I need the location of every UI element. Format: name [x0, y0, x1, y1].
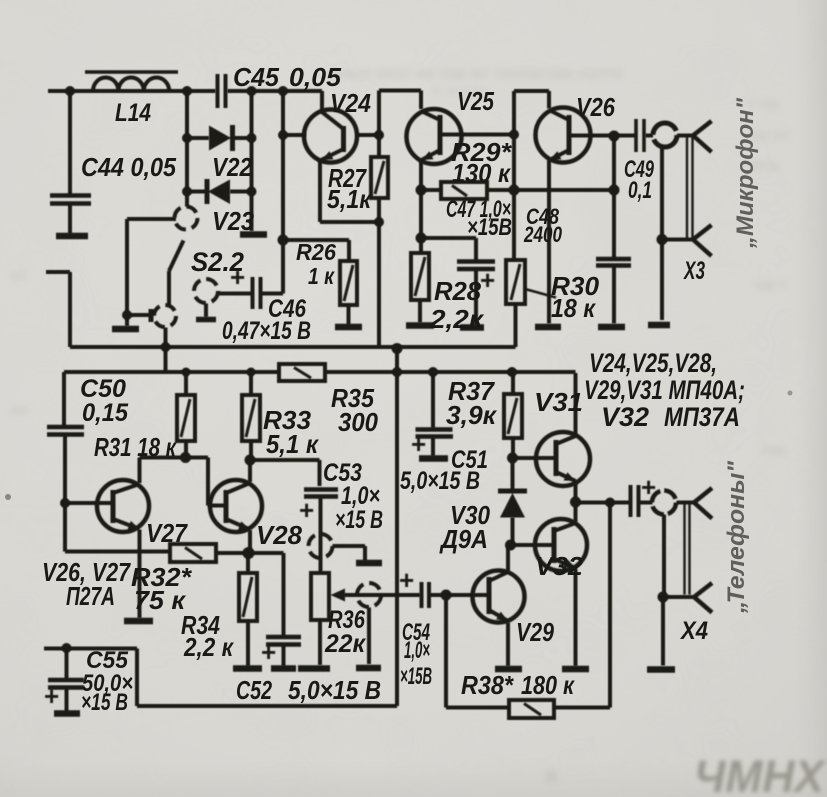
svg-text:18 к: 18 к	[551, 293, 597, 323]
svg-text:300: 300	[338, 407, 378, 437]
svg-text:Д9А: Д9А	[439, 524, 488, 554]
svg-text:C45: C45	[233, 62, 280, 92]
svg-text:„Микрофон": „Микрофон"	[732, 97, 759, 249]
svg-text:+: +	[399, 565, 414, 595]
svg-text:×15В: ×15В	[467, 214, 512, 241]
svg-text:75 к: 75 к	[134, 585, 187, 615]
svg-text:2,2к: 2,2к	[429, 304, 485, 334]
svg-text:V26: V26	[576, 92, 615, 122]
svg-text:180 к: 180 к	[521, 670, 576, 700]
svg-text:V28: V28	[256, 520, 303, 550]
svg-text:R31 18 к: R31 18 к	[94, 432, 177, 462]
svg-text:V29,V31 МП40А;: V29,V31 МП40А;	[584, 375, 745, 405]
svg-text:нв т: нв т	[755, 277, 787, 294]
svg-text:5,1к: 5,1к	[327, 184, 373, 214]
svg-text:130 к: 130 к	[452, 158, 512, 188]
svg-text:тпа: тпа	[760, 442, 785, 459]
svg-text:5,1 к: 5,1 к	[266, 429, 320, 459]
svg-text:R28: R28	[434, 276, 482, 306]
svg-text:×15В: ×15В	[400, 663, 432, 690]
svg-text:22к: 22к	[324, 630, 366, 658]
svg-text:X4: X4	[679, 617, 708, 645]
svg-text:5,0×15 В: 5,0×15 В	[400, 467, 480, 495]
svg-text:2400: 2400	[523, 222, 562, 247]
svg-text:V24: V24	[330, 88, 371, 118]
svg-text:ЧМНХ: ЧМНХ	[694, 751, 827, 797]
svg-text:C44 0,05: C44 0,05	[81, 152, 176, 182]
svg-text:V32: V32	[601, 402, 649, 432]
svg-text:V22: V22	[212, 152, 252, 182]
svg-text:по: по	[10, 402, 28, 419]
svg-text:V23: V23	[212, 206, 254, 236]
svg-text:V25: V25	[457, 86, 494, 116]
svg-text:+: +	[44, 681, 59, 711]
svg-text:0,15: 0,15	[82, 399, 129, 427]
svg-text:+: +	[480, 265, 495, 295]
svg-text:V29: V29	[516, 617, 554, 647]
svg-text:V32: V32	[535, 551, 584, 581]
svg-text:+: +	[261, 637, 276, 667]
svg-text:2,2 к: 2,2 к	[183, 632, 234, 662]
svg-text:С52: С52	[236, 675, 272, 705]
svg-text:×15 В: ×15 В	[335, 506, 383, 534]
svg-text:R38*: R38*	[461, 670, 515, 700]
svg-text:П27А: П27А	[66, 581, 115, 611]
svg-text:нт: нт	[10, 267, 26, 284]
svg-text:3,9к: 3,9к	[446, 400, 498, 430]
svg-text:V24,V25,V28,: V24,V25,V28,	[589, 348, 717, 378]
svg-text:0,1: 0,1	[628, 177, 652, 204]
svg-text:1 к: 1 к	[308, 263, 335, 289]
svg-text:+: +	[411, 429, 426, 459]
svg-text:V27: V27	[146, 518, 188, 548]
svg-text:V31: V31	[534, 387, 583, 417]
svg-text:нных позт на тор жт тизлагтам: нных позт на тор жт тизлагтам нзлтв	[330, 65, 624, 82]
svg-text:+: +	[641, 472, 656, 502]
svg-text:а: а	[545, 762, 558, 787]
svg-text:L14: L14	[115, 99, 151, 127]
svg-text:5,0×15 В: 5,0×15 В	[288, 675, 381, 705]
svg-text:1,0×: 1,0×	[404, 637, 430, 664]
svg-text:0,47×15 В: 0,47×15 В	[222, 317, 311, 345]
svg-text:×15 В: ×15 В	[81, 689, 128, 716]
svg-text:МП37А: МП37А	[664, 402, 740, 432]
svg-text:X3: X3	[683, 257, 705, 285]
svg-text:R26: R26	[296, 239, 336, 265]
svg-text:„Телефоны": „Телефоны"	[723, 460, 750, 614]
svg-text:S2.2: S2.2	[191, 247, 244, 277]
